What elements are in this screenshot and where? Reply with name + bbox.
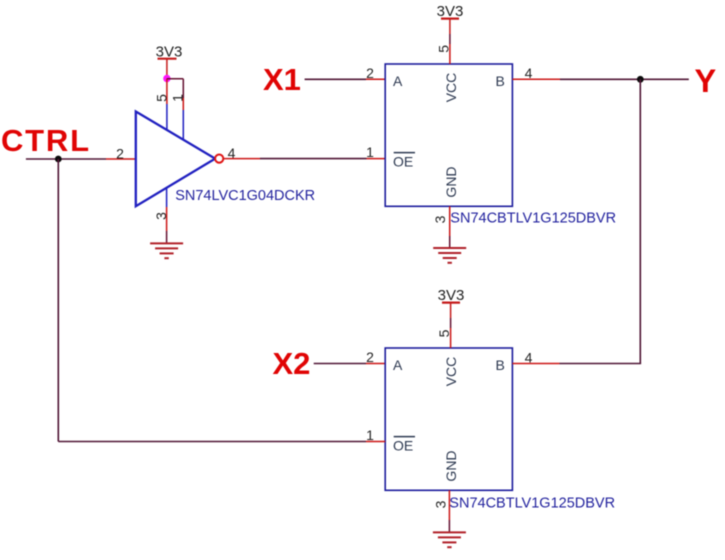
svg-text:2: 2 <box>366 65 374 81</box>
svg-text:OE: OE <box>393 438 413 454</box>
pin 5 stub (U3 VCC) <box>450 328 452 348</box>
pin label OE (U3) with overline <box>393 437 415 454</box>
svg-text:3: 3 <box>432 215 448 223</box>
pin 4 stub (U3 B) <box>512 363 559 365</box>
svg-text:SN74CBTLV1G125DBVR: SN74CBTLV1G125DBVR <box>449 496 615 512</box>
svg-text:4: 4 <box>525 349 533 365</box>
buffer U3 SN74CBTLV1G125DBVR body <box>385 348 512 490</box>
op-amp U1 inverter triangle SN74LVC1G04DCKR <box>136 112 215 207</box>
wire U3 B to Y vertical corner <box>560 363 642 365</box>
inverter output bubble <box>215 155 223 163</box>
svg-text:OE: OE <box>393 154 413 170</box>
wire 3V3 to pin 5 (U2) <box>449 34 451 44</box>
svg-text:5: 5 <box>435 45 451 53</box>
pin label OE (U2) with overline <box>393 153 415 170</box>
wire X1 to A of U2 <box>305 78 386 80</box>
svg-text:5: 5 <box>436 329 452 337</box>
svg-text:5: 5 <box>153 94 169 102</box>
buffer U2 SN74CBTLV1G125DBVR body <box>385 64 512 206</box>
ground symbol (U2) <box>433 248 466 263</box>
svg-text:3V3: 3V3 <box>438 287 465 304</box>
svg-text:3: 3 <box>433 500 449 508</box>
pin 4 stub (U2 B) <box>512 78 560 80</box>
svg-text:VCC: VCC <box>443 357 459 387</box>
svg-text:3: 3 <box>153 212 169 220</box>
wire CTRL net <box>26 158 106 160</box>
svg-text:A: A <box>393 357 403 373</box>
power symbol 3V3 (inverter supply) <box>156 43 183 78</box>
wire X2 to A of U3 <box>314 363 386 365</box>
svg-text:2: 2 <box>366 349 374 365</box>
svg-text:X2: X2 <box>273 346 311 381</box>
pin 3 stub (U3 GND) <box>448 490 450 520</box>
inverter pin 3 (GND) <box>166 188 168 243</box>
wire U2 B to Y <box>560 78 689 80</box>
svg-text:A: A <box>393 73 403 89</box>
junction dot CTRL <box>55 156 62 163</box>
wire inverter output to OE of U2 <box>223 158 385 160</box>
svg-text:2: 2 <box>116 145 124 161</box>
pin 2 stub (inverter input) <box>106 158 136 160</box>
wire CTRL vertical to OE of U3 <box>57 159 59 442</box>
wire CTRL to OE of U3 <box>58 441 366 443</box>
magenta power junction dot <box>163 75 170 82</box>
svg-text:Y: Y <box>695 63 717 99</box>
svg-text:3V3: 3V3 <box>437 3 464 20</box>
wire pin3 to ground (U2) <box>449 236 451 248</box>
svg-text:1: 1 <box>366 427 374 443</box>
wire Y net vertical to U3 B <box>639 79 641 363</box>
inverter pin 5 (VCC) wire <box>166 79 168 130</box>
svg-text:B: B <box>496 73 505 89</box>
svg-text:1: 1 <box>366 144 374 160</box>
ground symbol (inverter) <box>150 243 183 258</box>
svg-text:CTRL: CTRL <box>1 123 89 158</box>
wire 3V3 to pin 5 (U3) <box>450 318 452 328</box>
pin 3 stub (U2 GND) <box>449 206 451 236</box>
svg-text:X1: X1 <box>263 62 301 97</box>
power symbol 3V3 (U3 supply) <box>438 287 465 318</box>
inverter pin 1 wire jog <box>167 79 183 140</box>
ground symbol (U3) <box>433 532 466 547</box>
power symbol 3V3 (U2 supply) <box>437 3 464 34</box>
wire pin3 to ground (U3) <box>448 520 450 532</box>
junction dot Y net <box>637 76 644 83</box>
svg-text:GND: GND <box>443 450 459 481</box>
svg-text:4: 4 <box>525 65 533 81</box>
svg-text:SN74LVC1G04DCKR: SN74LVC1G04DCKR <box>175 188 315 204</box>
svg-text:VCC: VCC <box>443 73 459 103</box>
pin 1 stub (U3 OE) <box>366 441 385 443</box>
pin 5 stub (U2 VCC) <box>449 44 451 64</box>
svg-text:1: 1 <box>170 94 186 102</box>
svg-text:SN74CBTLV1G125DBVR: SN74CBTLV1G125DBVR <box>450 211 616 227</box>
svg-text:GND: GND <box>443 166 459 197</box>
svg-text:B: B <box>496 357 505 373</box>
